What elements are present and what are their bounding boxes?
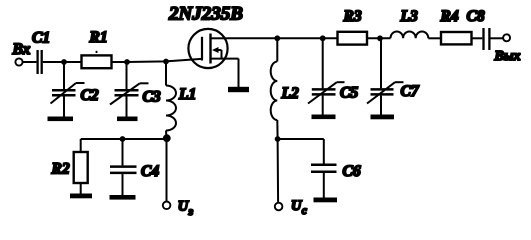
wire: bias rail R2/C4 to node G <box>81 138 167 140</box>
svg-text:Вх: Вх <box>12 41 31 58</box>
ground (C7) <box>371 115 395 120</box>
svg-text:C4: C4 <box>141 163 159 180</box>
svg-text:C3: C3 <box>143 89 161 106</box>
output terminal Вых <box>494 34 521 64</box>
svg-text:L2: L2 <box>281 85 299 102</box>
resistor R2 <box>51 139 88 194</box>
terminal Uз (gate bias) <box>163 199 194 219</box>
trimmer capacitor C7 <box>367 38 420 114</box>
node I (junction L2 bottom / C6 / Uc) <box>275 136 281 142</box>
node D (junction L2 on drain rail) <box>274 35 280 41</box>
capacitor C1 <box>32 30 50 75</box>
svg-text:C8: C8 <box>467 8 485 25</box>
svg-text:Вых: Вых <box>494 49 521 64</box>
ground (C5) <box>312 115 336 120</box>
transistor VT1 2NJ235B (MOSFET) <box>168 4 243 69</box>
inductor L3 <box>391 8 429 38</box>
wire: R3 to node F <box>367 37 391 39</box>
capacitor C8 <box>467 8 490 50</box>
capacitor C6 <box>311 139 361 198</box>
svg-text:R3: R3 <box>343 8 362 25</box>
svg-text:C5: C5 <box>340 85 358 102</box>
svg-text:C6: C6 <box>343 163 361 180</box>
resistor R3 <box>338 8 368 45</box>
ground (C2) <box>48 117 74 122</box>
ground (source) <box>228 87 249 92</box>
svg-text:с: с <box>302 205 307 217</box>
wire: node G to Uз terminal <box>166 139 168 202</box>
node F (junction C7 / L3 left) <box>377 35 383 41</box>
trimmer capacitor C2 <box>51 62 99 117</box>
resistor R4 <box>440 8 472 44</box>
svg-text:L3: L3 <box>400 8 418 25</box>
inductor L1 <box>166 61 196 139</box>
ground (C4) <box>110 195 136 200</box>
wire: C1 to node A <box>43 61 82 63</box>
input terminal Вх <box>12 41 31 66</box>
trimmer capacitor C3 <box>110 62 161 117</box>
inductor L2 <box>271 38 299 139</box>
ground (C6) <box>314 198 338 203</box>
trimmer capacitor C5 <box>308 38 358 114</box>
wire: drain rail (top) <box>228 37 338 39</box>
ground (C3) <box>117 117 138 122</box>
wire: node I to Uc terminal <box>277 139 280 203</box>
ground (R2) <box>70 194 92 199</box>
terminal Uc (drain supply) <box>275 198 307 217</box>
svg-text:R4: R4 <box>440 8 459 25</box>
capacitor C4 <box>110 139 159 195</box>
wire: input terminal to C1 <box>23 61 37 63</box>
node B (junction C3) <box>124 59 130 65</box>
svg-text:C1: C1 <box>32 30 50 47</box>
wire: L3 to R4 <box>428 37 441 39</box>
wire: R1 to gate of transistor <box>112 59 202 62</box>
wire: R4 to C8 <box>472 37 483 39</box>
node E (junction C5 / R3 left) <box>320 35 326 41</box>
svg-text:2NJ235B: 2NJ235B <box>168 4 243 25</box>
svg-text:C7: C7 <box>401 83 420 100</box>
wire: source to ground <box>238 59 240 87</box>
wire: C8 to output terminal <box>491 37 504 39</box>
svg-text:L1: L1 <box>178 86 196 103</box>
node C (junction L1) <box>163 59 169 65</box>
node A (junction C2 / R1) <box>61 59 67 65</box>
svg-text:C2: C2 <box>81 87 99 104</box>
resistor R1 <box>82 29 112 68</box>
wire: node I to C6 <box>278 138 324 140</box>
svg-text:з: з <box>188 206 194 218</box>
node G (junction L1 bottom / Uз) <box>163 134 171 142</box>
node H (junction C4 on bias rail) <box>120 136 126 142</box>
svg-text:R1: R1 <box>89 29 108 46</box>
svg-text:R2: R2 <box>51 161 70 178</box>
